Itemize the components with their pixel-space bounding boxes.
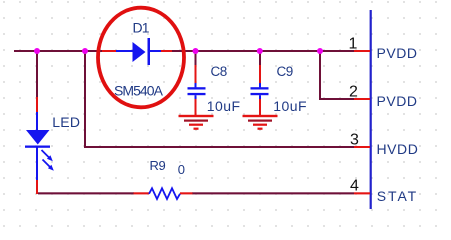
wire: [172, 50, 354, 52]
wire: [84, 51, 86, 147]
node D: [257, 48, 263, 54]
svg-text:C9: C9: [277, 64, 293, 79]
wire: [38, 192, 134, 194]
resistor R9: [134, 188, 193, 199]
wire: [14, 50, 102, 52]
svg-text:2: 2: [349, 83, 358, 100]
svg-text:LED: LED: [52, 114, 80, 130]
svg-text:4: 4: [350, 178, 359, 195]
svg-text:SM540A: SM540A: [114, 83, 164, 99]
LED D2: [25, 97, 54, 194]
node A: [34, 48, 40, 54]
svg-text:PVDD: PVDD: [377, 93, 418, 109]
wire: [84, 146, 354, 148]
pin 4: [354, 192, 370, 194]
svg-text:HVDD: HVDD: [377, 141, 419, 157]
ground for C9: [243, 115, 278, 130]
wire: [319, 98, 354, 100]
diode D1: [102, 38, 172, 65]
svg-text:0: 0: [178, 162, 185, 177]
svg-text:10uF: 10uF: [273, 98, 307, 114]
node C: [193, 48, 199, 54]
svg-text:D1: D1: [133, 20, 150, 36]
svg-text:1: 1: [349, 35, 358, 52]
node E: [317, 48, 323, 54]
svg-text:3: 3: [350, 132, 359, 149]
wire: [36, 51, 38, 99]
svg-text:PVDD: PVDD: [377, 45, 418, 61]
pin 1: [354, 50, 370, 52]
svg-text:10uF: 10uF: [207, 98, 241, 114]
svg-text:R9: R9: [150, 158, 166, 173]
pin 2: [354, 98, 370, 100]
wire: [319, 51, 321, 99]
capacitor C8: [188, 51, 206, 115]
pin 3: [354, 146, 370, 148]
connector bus line U1: [370, 10, 372, 209]
capacitor C9: [251, 51, 269, 115]
svg-text:C8: C8: [211, 64, 227, 79]
wire: [192, 192, 354, 194]
ground for C8: [179, 115, 214, 130]
node B: [82, 48, 88, 54]
annotation red ellipse: [98, 8, 184, 108]
node junction dots: [34, 48, 323, 54]
svg-text:STAT: STAT: [377, 188, 418, 204]
